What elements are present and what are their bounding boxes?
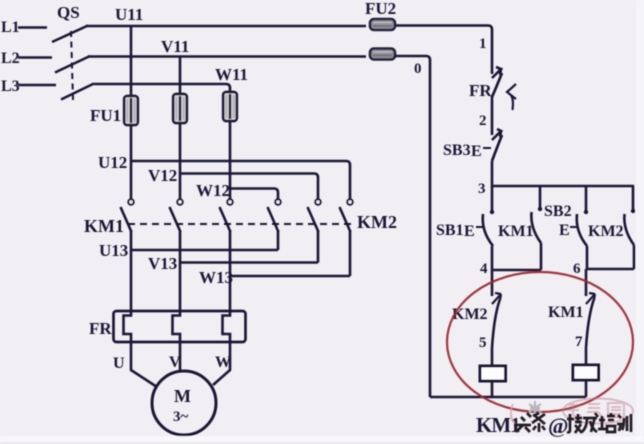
fuse FU1 phase W	[223, 92, 237, 121]
wire L2 stub	[18, 56, 52, 59]
fuse FU2 lower	[370, 49, 395, 60]
start button SB2 (NO) branch	[577, 186, 588, 269]
fuse FU1 phase V	[173, 94, 187, 123]
KM2 main contact 4	[268, 199, 281, 232]
wire L3 stub	[18, 84, 56, 87]
wire to coil KM1	[491, 348, 494, 366]
wire FR to motor U	[131, 342, 157, 387]
svg-text:KM1: KM1	[476, 413, 520, 437]
node U13 wire	[131, 231, 278, 311]
条	[532, 413, 545, 432]
wire V11 column	[179, 56, 182, 201]
wire W12 crossover to KM2 contact 4	[230, 189, 278, 201]
KM1 main contact U	[121, 199, 134, 232]
svg-text:U11: U11	[115, 5, 143, 24]
svg-text:6: 6	[573, 261, 581, 277]
svg-text:U13: U13	[99, 241, 128, 260]
svg-text:E: E	[559, 222, 570, 239]
svg-text:E: E	[464, 223, 475, 240]
KM1 main contact V	[170, 199, 183, 232]
watermark pink stamp arc (left)	[511, 404, 515, 424]
svg-text:SB3: SB3	[443, 142, 471, 159]
stop button SB3 (NC)	[483, 129, 502, 161]
watermark 电气圈 (pink, hand-drawn strokes)	[563, 399, 633, 424]
KM2 main contact 5	[308, 199, 321, 232]
svg-text:U12: U12	[98, 153, 127, 172]
wire coil KM1 to return	[491, 381, 494, 397]
thermal relay FR NC contact (control)	[492, 67, 516, 110]
node 4 wire	[492, 269, 541, 272]
wire W11 column	[229, 92, 232, 201]
svg-text:W12: W12	[196, 181, 230, 200]
svg-text:7: 7	[575, 334, 583, 350]
highlight ellipse (red)	[447, 272, 633, 412]
FR heater element W	[223, 311, 231, 342]
SB1 actuator link dash	[476, 226, 483, 228]
培	[598, 413, 615, 432]
svg-text:FR: FR	[89, 319, 112, 338]
svg-text:@: @	[548, 413, 568, 438]
fuse FU1 phase U	[124, 96, 138, 125]
svg-text:FU2: FU2	[365, 0, 396, 18]
wire FR to motor V	[179, 342, 182, 372]
svg-text:KM2: KM2	[588, 223, 624, 240]
svg-text:3~: 3~	[173, 409, 189, 425]
svg-text:0: 0	[414, 61, 422, 77]
svg-text:W11: W11	[215, 65, 248, 84]
contactor mechanical linkage dashed	[128, 223, 356, 225]
svg-text:L2: L2	[1, 50, 20, 67]
watermark badge star	[529, 401, 541, 415]
node 6 wire	[587, 268, 634, 271]
FR heater element U	[124, 311, 132, 342]
wire FR to motor W	[213, 342, 230, 385]
svg-text:KM1: KM1	[548, 304, 584, 321]
技	[567, 414, 582, 433]
wire L1 stub	[18, 26, 47, 29]
KM1 main contact W	[220, 199, 233, 232]
svg-text:4: 4	[480, 261, 488, 277]
wire L3 bus to W11 tap corner	[94, 84, 230, 94]
svg-text:E: E	[471, 143, 482, 160]
wire FU2b to neutral rail 0	[394, 56, 430, 397]
motor M 3~	[152, 371, 216, 435]
fuse FU2 upper	[370, 19, 395, 30]
wire FR to SB3	[491, 96, 494, 135]
svg-text:KM1: KM1	[498, 223, 534, 240]
coil KM1	[480, 366, 506, 381]
svg-text:L1: L1	[1, 19, 20, 36]
node W13 wire	[230, 231, 350, 311]
QS mechanical linkage dashed	[71, 31, 73, 100]
wire SB3 to node 3	[491, 161, 494, 187]
disconnect switch QS blade L3	[61, 84, 94, 100]
disconnect switch QS blade L1	[52, 26, 88, 43]
thermal relay FR frame	[114, 311, 246, 342]
svg-text:FR: FR	[469, 81, 492, 100]
头	[514, 413, 531, 432]
SB2 actuator link dash	[570, 226, 577, 228]
svg-text:QS: QS	[57, 3, 80, 22]
svg-text:SB1: SB1	[436, 222, 464, 239]
svg-text:1: 1	[479, 36, 487, 52]
wire L2 bus to fuse FU2b	[88, 55, 366, 58]
wire V12 crossover to KM2 contact 5	[180, 174, 318, 201]
svg-text:V13: V13	[148, 254, 177, 273]
svg-text:V12: V12	[148, 166, 177, 185]
KM1 auxiliary NO contact branch	[531, 186, 542, 270]
wire to coil KM2	[585, 348, 588, 365]
svg-text:W13: W13	[199, 268, 233, 287]
svg-text:SB2: SB2	[544, 203, 572, 220]
svg-text:V11: V11	[161, 37, 189, 56]
svg-text:L3: L3	[1, 78, 20, 95]
svg-text:U: U	[113, 355, 125, 372]
svg-text:3: 3	[478, 181, 486, 197]
wire U11 column	[130, 26, 133, 201]
svg-text:5: 5	[479, 335, 487, 351]
KM2 auxiliary NO contact branch	[624, 186, 635, 269]
FR heater element V	[173, 311, 181, 342]
scan edge lightening	[0, 436, 644, 444]
svg-text:V: V	[169, 354, 181, 371]
return wire to neutral 0	[430, 396, 586, 399]
coil KM2	[573, 365, 599, 380]
wire FU2a to control rail top corner	[394, 26, 492, 75]
watermark 头条@技成培训 (hand-drawn strokes)	[514, 413, 631, 433]
svg-text:2: 2	[479, 113, 487, 129]
svg-text:KM2: KM2	[357, 212, 397, 232]
成	[582, 413, 598, 432]
start button SB1 (NO) branch	[483, 186, 494, 270]
KM2 main contact 6	[340, 199, 353, 232]
wire L1 bus to fuse FU2a	[86, 25, 366, 28]
wire coil KM2 to return	[585, 380, 588, 397]
svg-text:KM1: KM1	[84, 216, 124, 236]
KM2 NC interlock contact	[492, 270, 501, 348]
disconnect switch QS blade L2	[55, 56, 90, 73]
svg-text:FU1: FU1	[90, 106, 121, 125]
KM1 NC interlock contact	[586, 269, 595, 348]
node 3 branch wire	[492, 185, 634, 188]
node V13 wire	[180, 231, 318, 311]
训	[617, 414, 631, 432]
svg-text:M: M	[174, 386, 191, 406]
svg-text:W: W	[215, 354, 231, 371]
wire U12 crossover to KM2 contact 6	[131, 161, 350, 200]
